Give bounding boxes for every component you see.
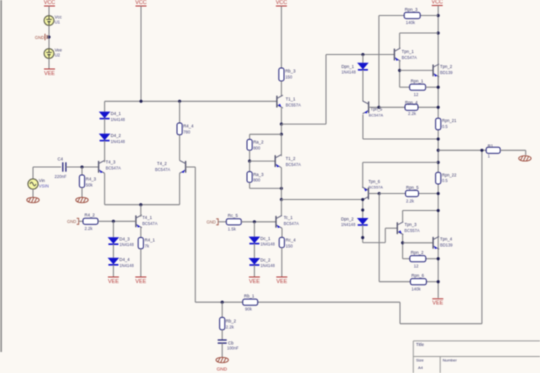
- node junction: [361, 208, 364, 211]
- wire: [280, 6, 282, 68]
- resistor Rb_3 150: [279, 68, 284, 81]
- svg-text:BD139: BD139: [440, 242, 453, 247]
- svg-text:Number: Number: [443, 358, 458, 363]
- wire Rpn_6 branch: [378, 194, 380, 282]
- svg-text:R4_2: R4_2: [85, 213, 96, 218]
- wire: [80, 220, 84, 222]
- wire Vin to ground: [32, 189, 34, 198]
- node junction: [437, 209, 440, 212]
- svg-text:1N4148: 1N4148: [260, 263, 275, 268]
- diode D4_3 1N4148: [108, 237, 120, 244]
- svg-text:2.2k: 2.2k: [408, 111, 417, 116]
- wire C4 to base node: [66, 166, 99, 168]
- svg-text:Rc_5: Rc_5: [228, 213, 239, 218]
- wire Tpn_3 collector tie: [402, 211, 404, 223]
- wire Tc_1 emitter: [281, 228, 283, 237]
- svg-text:Tpn_1: Tpn_1: [402, 49, 415, 54]
- svg-text:VCC: VCC: [432, 0, 443, 5]
- wire tail: [140, 205, 142, 216]
- wire: [48, 6, 50, 16]
- svg-text:T4_2: T4_2: [157, 161, 167, 166]
- transistor Tc_1 BC547A: [275, 216, 277, 228]
- svg-text:140k: 140k: [406, 20, 416, 25]
- node junction: [378, 192, 381, 195]
- wire: [219, 221, 227, 223]
- power net VEE (under R4_1): [135, 276, 146, 278]
- wire Tpn_6 base: [368, 193, 379, 195]
- node junction: [139, 203, 142, 206]
- wire: [140, 249, 142, 277]
- resistor R1 1: [486, 147, 500, 153]
- node junction: [112, 220, 115, 223]
- svg-text:BC547A: BC547A: [369, 113, 384, 118]
- node junction: [248, 160, 251, 163]
- svg-text:Dc_1: Dc_1: [260, 236, 271, 241]
- svg-text:D4_1: D4_1: [111, 111, 122, 116]
- resistor Ra_3 800: [249, 161, 251, 172]
- transistor Tpn_1 BC547A: [393, 49, 395, 61]
- wire: [112, 244, 114, 258]
- capacitor Cb 100nF: [218, 339, 227, 341]
- svg-text:0.5: 0.5: [442, 124, 448, 129]
- svg-text:GND: GND: [35, 35, 44, 40]
- resistor Ra_2 800: [249, 134, 251, 139]
- svg-text:T1_2: T1_2: [286, 156, 296, 161]
- node junction: [437, 86, 440, 89]
- node junction: [437, 137, 440, 140]
- title block frame: [413, 341, 540, 373]
- resistor R4_4 780: [179, 101, 181, 123]
- svg-text:2.2k: 2.2k: [226, 325, 235, 330]
- node junction: [361, 198, 364, 201]
- wire: [241, 221, 276, 223]
- node junction: [398, 69, 401, 72]
- svg-text:Tpn_3: Tpn_3: [404, 222, 417, 227]
- svg-text:Rb_3: Rb_3: [285, 68, 296, 73]
- resistor Rpn_1 12: [400, 86, 410, 88]
- svg-text:BC557A: BC557A: [368, 185, 383, 190]
- svg-text:780: 780: [183, 129, 191, 134]
- transistor Tpn_2 BD139: [432, 65, 434, 77]
- power net VEE (supply column): [44, 68, 55, 70]
- resistor Rpn_2 12: [410, 256, 426, 262]
- transistor T4_3 BC547A: [98, 161, 100, 173]
- svg-text:1N4148: 1N4148: [341, 222, 356, 227]
- svg-text:800: 800: [253, 178, 261, 183]
- svg-text:R1: R1: [488, 144, 494, 149]
- svg-text:BC557A: BC557A: [404, 228, 420, 233]
- resistor R4_2 2.2k: [83, 218, 98, 224]
- sheet left border: [0, 0, 2, 352]
- wire emitter T4_1: [140, 228, 142, 238]
- svg-text:Ra_2: Ra_2: [253, 140, 264, 145]
- resistor Rpn_21 0.5: [436, 118, 441, 130]
- node junction: [280, 133, 283, 136]
- wire: [221, 302, 223, 317]
- power net VEE (under Dc_2): [249, 276, 260, 278]
- svg-text:BC547A: BC547A: [106, 166, 122, 171]
- svg-text:1N4148: 1N4148: [119, 242, 134, 247]
- wire: [280, 81, 282, 96]
- svg-text:R4_1: R4_1: [145, 238, 156, 243]
- svg-text:Vin: Vin: [39, 178, 46, 183]
- voltage source Vin VSIN: [32, 167, 34, 179]
- svg-text:Dpn_2: Dpn_2: [341, 217, 354, 222]
- voltage source U1 Vcc: [44, 16, 54, 26]
- svg-text:Title: Title: [416, 342, 425, 347]
- wire Tpn_3 emitter: [402, 235, 404, 259]
- node junction: [280, 198, 283, 201]
- wire: [221, 330, 223, 340]
- wire Tpn_4 base: [403, 242, 434, 244]
- svg-text:BC547A: BC547A: [284, 221, 300, 226]
- wire VCC output rail: [437, 6, 439, 299]
- resistor Rc_5 1.5k: [226, 219, 241, 225]
- power net VEE (under Rc_4): [276, 276, 287, 278]
- wire VCC rail to diff pair: [140, 6, 142, 101]
- svg-text:GND: GND: [217, 367, 228, 372]
- diode Dpn_1 1N4148: [362, 55, 364, 63]
- resistor Rpn_5 2.2k: [406, 190, 419, 196]
- svg-text:Rb_1: Rb_1: [244, 294, 255, 299]
- resistor Rpn_22 0.5: [436, 172, 441, 184]
- svg-text:R4_3: R4_3: [86, 177, 97, 182]
- svg-text:VEE: VEE: [432, 301, 443, 307]
- ground (under Cb): [216, 357, 228, 362]
- node junction: [401, 241, 404, 244]
- node junction: [437, 280, 440, 283]
- capacitor C4 220nF: [62, 162, 64, 171]
- resistor R4_1 7k: [138, 238, 143, 249]
- svg-text:Rc_4: Rc_4: [286, 238, 297, 243]
- power net VEE (output rail): [432, 298, 443, 300]
- svg-text:2.2k: 2.2k: [406, 199, 415, 204]
- ground (under R4_3): [76, 197, 88, 202]
- wire: [250, 133, 282, 135]
- svg-text:Rpn_2: Rpn_2: [411, 250, 424, 255]
- node junction: [437, 149, 440, 152]
- svg-text:1.5k: 1.5k: [228, 226, 237, 231]
- svg-text:VEE: VEE: [44, 71, 55, 77]
- wire emitter T4_2: [179, 173, 181, 205]
- resistor Rb_2 2.2k: [220, 317, 225, 329]
- svg-text:BC547A: BC547A: [402, 55, 418, 60]
- wire: [280, 124, 282, 134]
- wire feedback to output: [399, 302, 401, 324]
- svg-text:140k: 140k: [411, 286, 421, 291]
- svg-text:BC547A: BC547A: [155, 167, 171, 172]
- wire Tpn_5 base feed: [378, 16, 380, 108]
- diode D4_2 1N4148: [99, 134, 111, 141]
- voltage source U2 Vee: [44, 49, 54, 59]
- svg-text:2.2k: 2.2k: [85, 226, 94, 231]
- ground (under Vin): [27, 197, 39, 202]
- svg-text:BD139: BD139: [440, 70, 453, 75]
- svg-text:90k: 90k: [245, 307, 253, 312]
- transistor Tpn_6 BC557A: [367, 188, 369, 200]
- wire collector rail: [105, 100, 277, 102]
- node junction: [480, 149, 483, 152]
- svg-text:U1: U1: [55, 20, 61, 25]
- wire: [253, 222, 255, 237]
- svg-text:BC557A: BC557A: [286, 102, 302, 107]
- wire: [250, 187, 282, 189]
- diode D4_1 1N4148: [99, 112, 111, 119]
- node junction: [280, 123, 283, 126]
- wire feedback rail: [195, 301, 400, 303]
- wire Tpn_1 emitter: [399, 61, 401, 87]
- wire: [280, 188, 282, 199]
- svg-text:Dc_2: Dc_2: [260, 257, 271, 262]
- svg-text:Rpn_4: Rpn_4: [405, 100, 418, 105]
- node junction: [253, 220, 256, 223]
- node junction: [139, 100, 142, 103]
- svg-text:VEE: VEE: [276, 279, 287, 285]
- node junction: [80, 165, 83, 168]
- svg-text:50k: 50k: [86, 183, 94, 188]
- svg-text:Rpn_5: Rpn_5: [406, 185, 419, 190]
- svg-text:1N4148: 1N4148: [260, 242, 275, 247]
- node junction: [47, 35, 50, 38]
- transistor Tpn_3 BC557A: [396, 222, 398, 234]
- resistor Rpn_4 2.2k: [405, 104, 418, 110]
- svg-text:1N4148: 1N4148: [119, 263, 134, 268]
- wire: [104, 119, 106, 134]
- svg-text:1N4148: 1N4148: [341, 69, 356, 74]
- node junction: [361, 236, 364, 239]
- svg-text:R4_4: R4_4: [183, 123, 194, 128]
- svg-text:Size: Size: [416, 358, 425, 363]
- wire input node: [33, 166, 61, 168]
- node junction: [377, 106, 380, 109]
- svg-text:0.5: 0.5: [442, 178, 448, 183]
- node junction: [437, 14, 440, 17]
- ground (output): [519, 156, 531, 161]
- wire T1_2 emitter: [280, 168, 282, 189]
- wire Rpn_4 branch: [379, 106, 405, 108]
- wire: [112, 221, 114, 237]
- svg-text:Rpn_3: Rpn_3: [405, 7, 418, 12]
- diode Dc_2 1N4148: [249, 258, 261, 265]
- svg-text:GND: GND: [206, 220, 215, 225]
- node junction: [437, 192, 440, 195]
- wire Tpn_2 base: [400, 69, 434, 71]
- wire: [98, 220, 136, 222]
- svg-text:Rpn_21: Rpn_21: [442, 118, 457, 123]
- svg-text:150: 150: [285, 74, 293, 79]
- svg-text:Rpn_6: Rpn_6: [411, 273, 424, 278]
- wire Tpn_6 collector: [362, 200, 364, 218]
- transistor T4_1 BC547A: [135, 215, 137, 227]
- wire: [104, 101, 106, 111]
- node junction: [437, 31, 440, 34]
- svg-text:T1_1: T1_1: [286, 96, 296, 101]
- svg-text:VEE: VEE: [135, 279, 146, 285]
- wire Tc_1 collector: [280, 200, 282, 217]
- svg-text:Tc_1: Tc_1: [284, 215, 294, 220]
- resistor R4_3 50k: [81, 167, 83, 175]
- svg-text:Rpn_1: Rpn_1: [411, 79, 424, 84]
- wire: [48, 58, 50, 69]
- wire: [362, 70, 364, 101]
- wire Tpn_6 emitter to output: [363, 161, 439, 163]
- wire emitter rail: [105, 204, 180, 206]
- diode Dpn_2 1N4148: [357, 218, 369, 225]
- svg-text:VCC: VCC: [276, 0, 287, 6]
- wire: [112, 265, 114, 277]
- diode Dc_1 1N4148: [249, 237, 261, 244]
- node junction: [280, 187, 283, 190]
- svg-text:D4_3: D4_3: [119, 237, 130, 242]
- transistor T4_2 BC547A: [185, 161, 187, 173]
- wire R1 to ground: [500, 149, 526, 151]
- resistor Rpn_3 140k: [404, 12, 420, 18]
- svg-text:220nF: 220nF: [55, 174, 67, 179]
- wire Rpn_2 branch: [403, 258, 410, 260]
- svg-text:VEE: VEE: [108, 279, 119, 285]
- transistor Tpn_5 BC547A: [368, 101, 370, 113]
- svg-text:U2: U2: [55, 53, 61, 58]
- wire Tpn_2 emitter: [437, 77, 439, 87]
- node junction: [221, 301, 224, 304]
- svg-text:T4_1: T4_1: [142, 215, 152, 220]
- svg-text:Dpn_1: Dpn_1: [341, 64, 354, 69]
- wire: [221, 343, 223, 357]
- transistor T1_1 BC557A: [276, 96, 278, 108]
- wire emitter T4_3: [104, 173, 106, 205]
- svg-text:800: 800: [253, 145, 261, 150]
- wire T1_1 collector: [280, 108, 282, 124]
- resistor Rpn_6 140k: [410, 279, 426, 285]
- wire VAS top drive: [281, 123, 326, 125]
- wire: [104, 141, 106, 161]
- wire base T4_2 to feedback node: [186, 166, 196, 168]
- diode D4_4 1N4148: [108, 258, 120, 265]
- svg-text:100nF: 100nF: [227, 346, 239, 351]
- wire: [48, 25, 50, 48]
- svg-text:Tpn_4: Tpn_4: [440, 236, 453, 241]
- wire Rpn_3 branch: [379, 15, 404, 17]
- svg-text:1N4148: 1N4148: [111, 117, 126, 122]
- svg-text:Tpn_6: Tpn_6: [368, 179, 380, 184]
- transistor Tpn_4 BD139: [432, 237, 434, 249]
- svg-text:Rb_2: Rb_2: [226, 318, 237, 323]
- wire Rpn_5 branch: [379, 193, 405, 195]
- wire VAS bottom drive: [281, 199, 362, 201]
- node junction: [437, 161, 440, 164]
- svg-text:12: 12: [414, 263, 419, 268]
- svg-text:Rpn_22: Rpn_22: [442, 172, 457, 177]
- wire Dpn_2 to Tpn_3 base: [362, 225, 364, 243]
- wire: [281, 248, 283, 277]
- wire T1_2 base: [250, 160, 276, 162]
- node junction: [178, 100, 181, 103]
- svg-text:T4_3: T4_3: [106, 160, 116, 165]
- node junction: [361, 53, 364, 56]
- svg-text:VEE: VEE: [249, 279, 260, 285]
- svg-text:1N4148: 1N4148: [111, 139, 126, 144]
- resistor Rc_4 150: [279, 237, 284, 247]
- wire output node to R1: [438, 149, 486, 151]
- svg-text:Tpn_2: Tpn_2: [440, 64, 453, 69]
- svg-text:VCC: VCC: [44, 0, 55, 6]
- svg-text:VSIN: VSIN: [39, 184, 49, 189]
- svg-text:C4: C4: [58, 156, 64, 161]
- wire: [253, 265, 255, 277]
- power net VEE (under D4_4): [108, 276, 119, 278]
- node junction: [437, 106, 440, 109]
- wire Tpn_5 base: [369, 106, 379, 108]
- wire Rpn_6 branch horizontal: [379, 281, 410, 283]
- svg-text:Ra_3: Ra_3: [253, 172, 264, 177]
- svg-text:VCC: VCC: [135, 0, 146, 6]
- wire: [253, 244, 255, 258]
- wire Tpn_1 collector tie: [400, 32, 439, 34]
- svg-text:150: 150: [286, 243, 294, 248]
- svg-text:BC547A: BC547A: [142, 221, 158, 226]
- svg-text:D4_2: D4_2: [111, 133, 122, 138]
- svg-text:GND: GND: [67, 219, 76, 224]
- svg-text:A4: A4: [418, 365, 424, 370]
- transistor T1_2 BC547A: [274, 155, 276, 167]
- svg-text:12: 12: [414, 92, 419, 97]
- svg-text:BC547A: BC547A: [286, 162, 302, 167]
- node junction: [437, 257, 440, 260]
- svg-text:D4_4: D4_4: [119, 257, 130, 262]
- resistor Rb_1 90k: [243, 299, 258, 305]
- wire Tpn_5 emitter to output: [362, 115, 364, 139]
